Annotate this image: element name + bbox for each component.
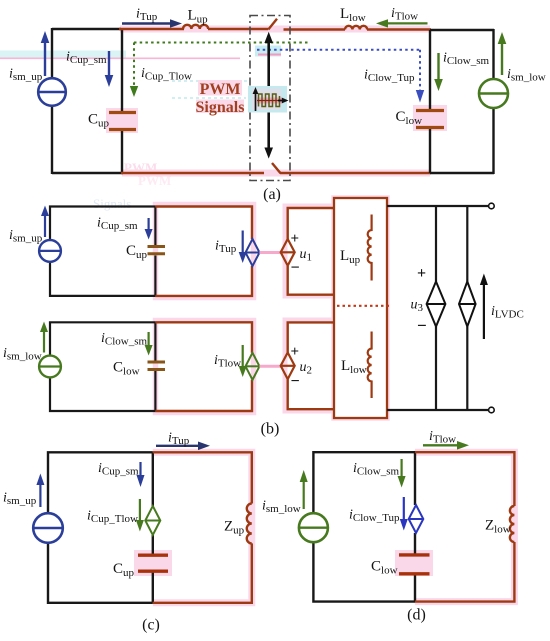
svg-text:PWM: PWM [200,81,241,98]
wire (a) C_low branch upper [429,30,431,109]
wire (b) u3 branch [435,206,437,410]
double-headed arrow PWM drive [264,32,273,159]
wire (a) left loop left vertical upper [51,28,53,78]
arrow i_Tlow (b) [239,345,247,377]
svg-text:−: − [291,373,300,390]
arrow i_Clow_sm (a) [434,53,443,91]
svg-text:Signals: Signals [93,196,131,211]
wire (a) C_low branch lower [429,128,431,173]
glow (b) big transformer box [334,198,387,418]
artifact cyan band top-left [0,51,126,59]
current source Ism_low circle [479,79,508,108]
svg-text:Signals: Signals [196,99,245,116]
capacitor C_low (b) plates [148,362,166,370]
arrow i_Tup (a) [122,19,182,28]
artifact pink line near dashdot box [258,54,281,56]
svg-text:+: + [417,265,426,282]
arrow i_sm_up (a) [41,31,50,76]
transformer box (b) [334,198,387,418]
svg-text:+: + [291,344,300,360]
current source Ism_low (b) [39,356,61,378]
artifact cyan patch near dashdot box [255,46,281,57]
wire (a) left loop top black [52,28,121,30]
dashed current path i_Clow_Tup vertical [419,50,421,91]
artifact cyan dotted line near PWM text upper [172,80,248,82]
arrow i_Clow_Tup (d) [400,497,408,531]
inductor L_low [345,26,367,30]
current source Ism_up (b) [39,240,61,262]
wire (a) top red middle segment [208,28,268,30]
dotted divider transformer [337,305,391,307]
wire (b) upper loop black [50,207,155,296]
terminal bottom [489,407,495,413]
arrow i_sm_low (a) [498,32,507,75]
arrow i_Cup_sm (a) [105,51,114,87]
wire (c) middle branch [152,452,154,603]
arrow i_sm_up (c) [36,474,44,508]
glow (a) C_up capacitor [106,108,138,133]
dashed current path i_Cup_Tlow vertical [133,43,135,88]
arrowhead i_Clow_Tup [416,90,424,103]
current source Ism_up (c) [33,513,63,543]
wire (a) C_up branch lower [121,130,123,173]
arrow i_sm_low (b) [40,322,48,353]
PWM gate-signal dashdot box [250,16,290,181]
arrow i_Tup (b) [239,231,247,264]
glow (b) u1 loop [285,206,335,296]
capacitor C_up plates [109,113,136,130]
arrow i_Cup_sm (b) [145,218,153,240]
wire (a) top red to right loop [367,28,431,30]
dependent source diamond i_Tlow (b) [246,353,260,380]
wire (a) left loop bottom black [52,172,123,174]
arrow i_Clow_sm (d) [398,459,406,488]
glow (a) top red wire [120,26,430,33]
wire (a) right loop bottom black [430,172,494,174]
current source Ism_up circle [38,78,66,106]
glow (b) upper red box [156,205,254,298]
arrow i_Cup_sm (c) [137,462,145,487]
arrowhead i_Cup_Tlow [130,86,138,97]
dependent source diamond u1 [281,239,295,266]
PWM waveform icon [248,86,289,113]
glow (d) right red wires [415,452,514,601]
switch T_low blade [272,163,281,173]
terminal top [489,203,495,209]
inductor Z_low [510,506,515,542]
wire (c) red right side [153,452,252,603]
glow (c) right red wires [153,452,252,603]
inductor L_up (b) [368,215,372,281]
arrow i_sm_low (d) [300,470,308,509]
svg-text:(b): (b) [261,421,280,438]
wire (b) u2 loop [288,322,334,409]
wire (a) bottom red left segment [121,172,264,174]
capacitor C_low (d) plates [399,555,430,574]
arrow i_LVDC [480,274,488,340]
glow (c) C_up capacitor [134,550,172,576]
wire (b) lower red box [155,322,252,411]
glow (a) C_low capacitor [413,105,447,131]
wire (b) C_up branch [154,207,156,296]
capacitor C_low plates [416,111,444,128]
dashed current path i_Cup_Tlow horizontal [134,42,308,44]
artifact pink line top-left [0,57,240,59]
svg-text:(a): (a) [263,186,281,203]
arrow i_Tlow (d) [423,441,469,450]
wire (a) right loop right vertical upper [492,29,494,79]
wire connector lower diamond to u2 [260,365,282,368]
wire (a) right loop right vertical lower [492,108,494,174]
svg-text:+: + [291,231,300,247]
arrow i_sm_up (b) [41,206,49,238]
wire (b) C_low branch [154,322,156,411]
dependent source diamond i_Tup (b) [246,239,260,266]
wire (a) top red right segment [284,28,346,30]
glow (d) C_low capacitor [395,550,433,576]
wire (b) top right black [387,205,489,207]
wire (c) loop black left [48,452,153,603]
svg-text:(d): (d) [407,607,426,624]
current source Ism_low (d) [299,513,328,542]
dependent source diamond u2 [281,353,295,380]
wire (d) middle branch [414,452,416,601]
wire (d) red right side [415,452,514,601]
wire (a) left loop left vertical lower [51,106,53,174]
arrow i_Clow_sm (b) [145,332,153,356]
capacitor C_up (b) plates [148,247,166,254]
dependent source diamond u3 [427,282,446,327]
label PWM Signals [196,80,245,116]
wire (b) bottom right black [387,409,489,411]
dependent source diamond i_LVDC [459,282,476,327]
wire connector upper diamond to u1 [260,251,282,254]
arrow i_Tup (c) [156,442,210,451]
wire (a) top red left segment [119,28,184,30]
dashed current path i_Clow_Tup horizontal [257,49,420,51]
wire (a) C_up branch upper [121,29,123,111]
switch T_up blade [268,19,277,30]
glow (b) lower red box [156,321,254,413]
dependent source diamond i_Clow_Tup (d) [409,505,424,533]
capacitor C_up (c) plates [138,555,168,571]
wire (b) lower loop black [50,322,155,411]
wire (d) loop black left [313,452,415,601]
arrow i_Tlow (a) [376,19,428,27]
wire (b) upper red box [155,207,252,296]
glow (b) u2 loop [285,320,335,411]
svg-text:(c): (c) [142,617,160,634]
dependent source diamond i_Cup_Tlow (c) [145,506,160,535]
wire (a) right loop top black [430,29,494,31]
svg-text:−: − [291,260,300,277]
wire (b) u1 loop [288,208,334,295]
inductor L_up [183,25,208,29]
glow (a) bottom red wire [122,170,430,177]
arrow i_Cup_Tlow (c) [136,499,144,532]
svg-text:−: − [417,316,427,335]
wire (b) i_LVDC branch [466,206,468,410]
wire (a) bottom red right segment [280,172,431,174]
artifact cyan dotted line near PWM text lower [172,97,246,99]
inductor L_low (b) [368,332,372,399]
inductor Z_up [247,504,252,544]
